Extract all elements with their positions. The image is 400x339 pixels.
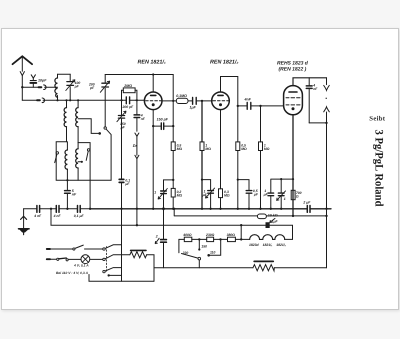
wire V1 plate line right <box>162 100 212 102</box>
antenna <box>13 56 33 87</box>
connector hook lower <box>42 98 44 103</box>
capacitor 2nF mains <box>155 209 166 268</box>
wire coupling line to V3 <box>238 105 284 107</box>
svg-text:nF: nF <box>72 193 77 197</box>
node bus x271 <box>270 208 272 210</box>
svg-text:200 pF: 200 pF <box>122 105 135 109</box>
tube V3 envelope <box>284 86 303 115</box>
switch gang link dashed <box>106 247 108 272</box>
wire x260 mid <box>260 151 262 209</box>
capacitor 4nF bus1 <box>37 206 40 213</box>
contact mains third <box>103 270 105 272</box>
switch arm <box>106 129 111 180</box>
node bus x202 <box>201 208 203 210</box>
wire mains lower <box>47 258 103 260</box>
svg-text:110: 110 <box>210 251 216 255</box>
wire V3 anode bracket top <box>293 78 327 86</box>
wire selector left bracket <box>178 239 180 252</box>
lamp pilot <box>81 255 90 264</box>
node x202 bracket <box>201 179 203 181</box>
capacitor 1nF x281 trimmer <box>277 179 286 209</box>
node y225 x136 <box>136 224 138 226</box>
wire heater row <box>179 238 293 240</box>
node coil top on y100 <box>56 99 58 101</box>
tube V1 cathode dot <box>152 103 155 106</box>
heater filament bumps <box>250 235 285 240</box>
svg-text:2 μF: 2 μF <box>302 201 311 205</box>
capacitor 100pF trimmer <box>66 74 75 100</box>
capacitor 1uF electrolytic black <box>266 218 275 227</box>
node output bottom <box>325 122 327 124</box>
svg-text:1821/₁: 1821/₁ <box>263 243 273 247</box>
node bus x153 <box>152 208 154 210</box>
resistor 700 V3 cathode <box>291 190 295 199</box>
svg-text:10 kΩ: 10 kΩ <box>268 213 278 217</box>
resistor heater dropper hatched <box>122 250 155 281</box>
switch L5 arm <box>86 151 88 160</box>
node antenna junction <box>21 86 23 88</box>
capacitor 1uF coupling <box>193 98 197 105</box>
coil L2 left <box>64 100 66 142</box>
tube V2 anode bar <box>218 94 223 96</box>
wire V2 cathode to bus <box>220 198 222 209</box>
capacitor 150pF padder trimmer <box>117 100 126 179</box>
ground symbol <box>19 209 29 235</box>
node bus x249 <box>248 208 250 210</box>
capacitor 0,1uF bus3 <box>78 206 81 213</box>
svg-text:(REN 1822 ): (REN 1822 ) <box>279 67 307 73</box>
coil L3 right <box>76 100 78 142</box>
node bus x163 <box>162 207 165 210</box>
wire x202 mid <box>201 151 203 209</box>
node bus x220 <box>219 208 221 210</box>
node heater row x199 <box>198 238 200 240</box>
tube V1 grid dashes <box>146 100 162 102</box>
capacitor 10pF antenna series <box>30 75 36 87</box>
node x237 bracket <box>237 179 239 181</box>
svg-text:400Ω: 400Ω <box>182 233 192 237</box>
resistor 10k oval <box>257 214 266 219</box>
wire V2 grid resistor drop <box>201 101 203 142</box>
node grid cap left <box>120 99 122 101</box>
svg-text:1821/₂: 1821/₂ <box>276 243 286 247</box>
svg-text:1μF: 1μF <box>190 105 197 109</box>
wire anode drop x173 <box>172 75 174 142</box>
wire x237 mid <box>237 151 239 209</box>
wire antenna upper <box>22 86 57 88</box>
capacitor 4nF output <box>306 78 312 123</box>
svg-text:μF: μF <box>253 193 259 197</box>
svg-text:380Ω: 380Ω <box>227 233 236 237</box>
wire x136 below bus <box>136 209 138 225</box>
node V2 grid junction <box>201 100 203 102</box>
node trimmer bottom on y100 <box>69 99 71 101</box>
resistor 400 heater <box>184 237 192 241</box>
tube V3 grid dashes row2 <box>286 104 300 106</box>
wire V3 grid leak drop <box>260 106 262 142</box>
svg-text:Seibt: Seibt <box>369 116 385 123</box>
tube V1 anode bar <box>151 94 156 96</box>
node link right <box>172 125 174 127</box>
svg-text:150: 150 <box>201 244 207 248</box>
node heater row x241 <box>240 238 242 240</box>
node x173 on plate line <box>172 100 174 102</box>
svg-text:nF: nF <box>141 117 146 121</box>
svg-text:1: 1 <box>154 190 156 194</box>
contact mains upper <box>103 248 105 250</box>
svg-text:2MΩ: 2MΩ <box>123 84 132 88</box>
capacitor 150pF anode-cathode link <box>153 123 173 129</box>
capacitor 1uF x271 <box>268 193 274 209</box>
node bus x90 <box>89 208 91 210</box>
wire heater supply line y225 <box>51 209 293 240</box>
switch mains upper <box>73 248 75 250</box>
wire coil top bracket <box>58 73 71 75</box>
wire V2 cathode down <box>220 110 222 189</box>
wire x173 to bus <box>172 197 174 209</box>
svg-text:150 pF: 150 pF <box>157 117 169 121</box>
switch wave-change contact <box>104 127 106 129</box>
node fourth contact <box>108 274 110 276</box>
svg-text:REN 1821/₁: REN 1821/₁ <box>138 60 166 66</box>
wire selector common vertical <box>121 209 123 281</box>
wire branch to trimmer <box>164 180 174 191</box>
wire x173 mid <box>172 151 174 189</box>
svg-text:MΩ: MΩ <box>224 193 230 197</box>
resistor 0,1M anode load <box>176 98 188 103</box>
node coil L3 top <box>77 99 79 101</box>
svg-text:4 nF: 4 nF <box>53 214 62 218</box>
node bracket3 cathode <box>292 178 294 180</box>
tube V3 cathode dot <box>292 107 295 110</box>
svg-text:MΩ: MΩ <box>205 147 211 151</box>
capacitor 0,1uF detector line <box>119 179 124 208</box>
switch voltage selector arm <box>182 254 198 259</box>
node tap arrow end <box>98 132 101 135</box>
node y216 V3 cathode <box>292 215 294 217</box>
svg-text:4nF: 4nF <box>244 97 252 101</box>
node bus x173 <box>172 208 174 210</box>
node bus x51 <box>50 208 52 210</box>
svg-text:0,1MΩ: 0,1MΩ <box>176 94 187 98</box>
node V1 anode on rail <box>152 73 154 75</box>
svg-text:10pF: 10pF <box>38 79 47 83</box>
svg-text:nF: nF <box>313 87 318 91</box>
tube V1 envelope <box>144 92 162 110</box>
resistor 0,5M x173 <box>171 142 175 151</box>
node L5 tap <box>78 161 82 163</box>
wire bracket1 <box>202 180 211 191</box>
capacitor 4nF coupling V3 <box>247 103 251 110</box>
node 5nF on frame bottom <box>66 179 68 181</box>
resistor 2M grid leak <box>122 88 137 100</box>
node bus x210 <box>209 208 211 210</box>
svg-text:230Ω: 230Ω <box>205 233 215 237</box>
svg-text:Bei 110 V : 4 V; 0,3 A: Bei 110 V : 4 V; 0,3 A <box>56 271 89 275</box>
tube V3 anode bar <box>289 91 297 93</box>
capacitor 4nF on choke line <box>134 100 140 131</box>
svg-text:Dr: Dr <box>133 144 138 148</box>
resistor 230 heater <box>207 237 214 241</box>
wire selector wiper down <box>198 260 200 268</box>
node bracket3 mid <box>280 178 282 180</box>
node bus x260 <box>259 208 261 210</box>
capacitor 1uF bracket1 <box>206 188 215 209</box>
svg-text:pF: pF <box>120 125 126 129</box>
node bus x121 <box>120 208 122 210</box>
node bus x174 riser <box>173 208 175 210</box>
wire output bottom link <box>309 122 326 124</box>
svg-text:1823d: 1823d <box>249 243 260 247</box>
wire top rail <box>105 74 173 76</box>
connector hook upper <box>44 85 46 90</box>
coil L1 antenna <box>55 74 58 100</box>
svg-text:MΩ: MΩ <box>177 147 183 151</box>
speaker jack terminals <box>324 78 330 268</box>
svg-text:MΩ: MΩ <box>177 193 183 197</box>
wire grid line y100 <box>22 99 144 101</box>
tube V2 grid dashes <box>213 100 229 102</box>
capacitor 0,5uF bracket2 <box>246 191 252 209</box>
node x173 branch <box>172 179 174 181</box>
wire bracket2 <box>238 180 249 191</box>
node bus x281 <box>280 208 282 210</box>
resistor 0,5M x237 <box>236 142 240 151</box>
wire tap 150 <box>198 239 200 249</box>
node bus x67 <box>66 208 68 210</box>
resistor mains dropper zigzag <box>253 261 274 270</box>
svg-text:pF: pF <box>74 85 80 89</box>
svg-text:MΩ: MΩ <box>241 147 247 151</box>
svg-text:1μF: 1μF <box>272 220 279 224</box>
node link left <box>152 125 154 127</box>
capacitor 5nF <box>65 180 71 209</box>
node bus x136 <box>136 208 138 210</box>
switch L4 arm <box>55 154 57 162</box>
svg-text:pF: pF <box>89 86 95 90</box>
wire V2 anode bracket <box>221 77 238 142</box>
wire HT line y216 <box>174 209 326 216</box>
coil L4 lower-left <box>65 142 67 180</box>
node y216 x326 <box>325 215 327 217</box>
wire return y281 <box>89 275 154 282</box>
svg-text:MΩ: MΩ <box>264 147 270 151</box>
wire bracket3 <box>271 179 293 193</box>
resistor 1M V2 grid <box>200 142 204 151</box>
resistor 380 heater <box>228 237 236 241</box>
node bus x326 <box>325 208 327 210</box>
wire V1 anode to top rail <box>152 75 154 93</box>
capacitor 200pF grid series <box>123 97 136 104</box>
capacitor 1nF trimmer branch <box>158 189 167 209</box>
resistor 1M V3 grid <box>259 142 263 151</box>
choke Dr with break marks <box>135 133 139 209</box>
capacitor 200pF tuning trimmer <box>100 75 109 127</box>
svg-text:4 nF: 4 nF <box>33 214 42 218</box>
svg-text:2: 2 <box>155 235 158 239</box>
node V2 anode line junction <box>237 105 239 107</box>
node coil L2 top <box>65 99 67 101</box>
switch L5 contact <box>87 149 89 151</box>
svg-text:Ω: Ω <box>295 194 299 198</box>
switch L4 contact <box>56 152 58 154</box>
contact mains lower <box>103 258 105 260</box>
wire tap from L3 to switch <box>78 119 99 134</box>
node bus x237 <box>237 208 239 210</box>
wire x241 drop to heater row <box>240 225 242 239</box>
wire V3 cathode down <box>292 115 294 216</box>
capacitor 4nF bus2 <box>56 206 59 213</box>
node grid cap right <box>136 99 138 101</box>
node heater row x220 <box>219 238 221 240</box>
capacitor 2uF bus right <box>307 206 310 213</box>
resistor 0,3M V2 cathode <box>219 189 223 198</box>
wire ground bus <box>24 208 91 210</box>
wire V1 cathode down <box>152 110 154 209</box>
tube V2 cathode dot <box>219 103 222 106</box>
wire heater return y267 <box>154 267 327 269</box>
svg-text:3 Pg/PgL Roland: 3 Pg/PgL Roland <box>373 130 385 208</box>
svg-text:μF: μF <box>124 182 130 186</box>
resistor 0,2M x173 <box>171 188 175 197</box>
lower coil frame right bracket <box>78 143 90 181</box>
wire mains upper <box>47 248 103 250</box>
tube V2 envelope <box>212 92 230 110</box>
coil L5 lower-right <box>76 143 78 181</box>
wire frame common down to bus <box>89 180 91 209</box>
node y225 x241 <box>240 224 242 226</box>
svg-text:1: 1 <box>284 197 286 201</box>
node V3 grid leak junction <box>259 105 261 107</box>
tube V3 grid dashes row1 <box>286 97 300 99</box>
svg-text:REN 1821/₂: REN 1821/₂ <box>210 60 238 66</box>
wire tap 110 <box>207 239 220 256</box>
svg-text:0,1 μF: 0,1 μF <box>74 214 85 218</box>
wire antenna stem lower <box>21 87 23 100</box>
lower coil frame left bracket <box>56 142 111 180</box>
switch mains lower <box>57 258 59 260</box>
svg-text:4 V; 0,1 A: 4 V; 0,1 A <box>73 264 89 268</box>
